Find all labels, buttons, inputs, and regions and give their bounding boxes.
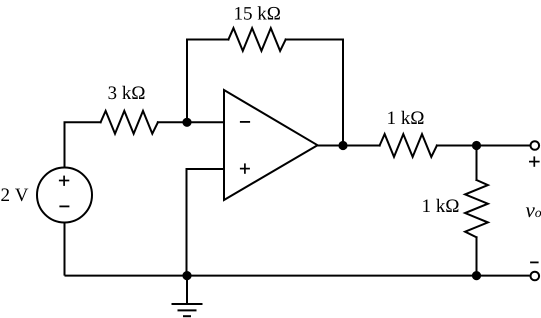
ground symbol	[172, 276, 203, 317]
label 2 V	[1, 188, 28, 201]
resistor 1k (series) label "1 kΩ"	[388, 111, 423, 124]
wire: 15k right and down to op-amp output node	[286, 40, 343, 146]
voltage source VS 2 V circle	[37, 168, 92, 223]
voltage source plus sign	[59, 176, 69, 186]
resistor R 15k body	[228, 28, 285, 51]
label v_o	[526, 207, 541, 217]
resistor R 1k series body	[380, 134, 437, 157]
wire: non-inverting input to ground rail	[187, 169, 225, 276]
output plus polarity sign	[529, 156, 540, 166]
terminal: output positive (open circle)	[531, 141, 540, 150]
resistor 3k label "3 kΩ"	[109, 86, 145, 99]
wire: 1k load resistor down to bottom rail	[476, 237, 478, 275]
voltage source minus sign	[59, 205, 69, 207]
output minus polarity sign	[530, 261, 539, 263]
op-amp minus input sign	[240, 121, 250, 123]
wire: op-amp output to 1k series resistor	[318, 145, 380, 147]
wire: 1k series resistor to positive output terminal	[437, 145, 530, 147]
node: ground junction on rail	[182, 271, 191, 280]
node: inverting input junction	[182, 118, 191, 127]
resistor R 1k load body (vertical)	[465, 180, 488, 237]
resistor 15k label "15 kΩ"	[235, 6, 280, 19]
wire: bottom rail	[65, 275, 530, 277]
node: output top junction	[472, 141, 481, 150]
wire: output node down to 1k load resistor	[476, 146, 478, 181]
wire: left vertical from inverting row down to source top	[64, 122, 66, 167]
op-amp U1 triangle	[224, 90, 318, 200]
op-amp plus input sign	[240, 163, 250, 173]
wire: source top to 3k resistor	[65, 121, 101, 123]
node: op-amp output junction	[338, 141, 347, 150]
resistor 1k (load) label "1 kΩ"	[423, 199, 458, 212]
node: output bottom junction	[472, 271, 481, 280]
terminal: output negative (open circle)	[531, 272, 540, 281]
wire: feedback from inverting node up and right to 15k	[187, 40, 228, 123]
wire: from source bottom down to ground rail	[64, 223, 66, 276]
resistor R 3k body	[101, 111, 158, 134]
wire: 3k resistor to op-amp inverting input	[158, 121, 224, 123]
